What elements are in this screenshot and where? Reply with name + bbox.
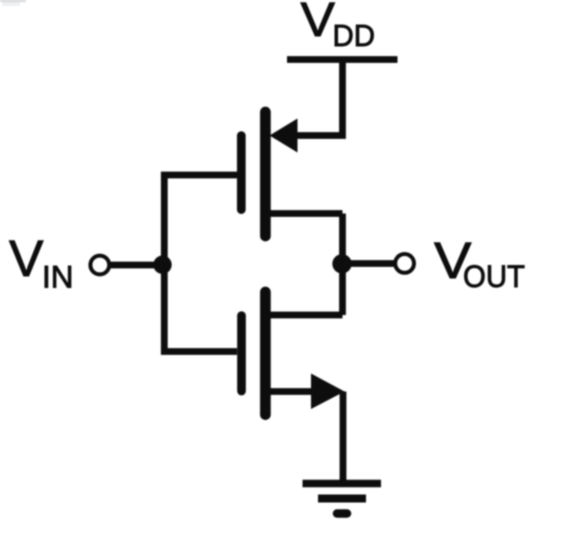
transistor M1 PMOS source arrow bbox=[270, 119, 298, 153]
transistor M2 NMOS source lead bbox=[267, 388, 314, 395]
wire NMOS source to ground bbox=[340, 392, 347, 488]
wire VDD rail to PMOS source bbox=[296, 60, 343, 136]
label VDD bbox=[301, 0, 376, 53]
transistor M1 PMOS gate bar bbox=[237, 136, 246, 210]
transistor M2 NMOS source arrow bbox=[311, 374, 345, 410]
node VIN junction bbox=[153, 256, 171, 274]
svg-text:IN: IN bbox=[42, 259, 74, 295]
transistor M2 NMOS gate bar bbox=[237, 316, 246, 391]
power rail VDD bbox=[287, 56, 398, 63]
svg-text:V: V bbox=[9, 230, 44, 287]
transistor M1 PMOS channel bar bbox=[260, 112, 271, 236]
svg-text:OUT: OUT bbox=[463, 258, 525, 294]
wire input to PMOS and NMOS gates bbox=[164, 175, 237, 352]
label VIN bbox=[9, 230, 74, 295]
wire PMOS drain to output node bbox=[339, 214, 346, 264]
terminal VOUT bbox=[395, 254, 414, 273]
svg-text:DD: DD bbox=[333, 18, 376, 53]
transistor M2 NMOS drain lead bbox=[267, 312, 343, 319]
ground middle bar bbox=[318, 495, 366, 503]
node VOUT junction bbox=[332, 254, 351, 273]
transistor M2 NMOS channel bar bbox=[260, 292, 271, 415]
svg-text:V: V bbox=[301, 0, 336, 47]
ground bottom bar bbox=[337, 509, 347, 518]
ground top bar bbox=[303, 480, 382, 488]
wire NMOS drain to output node bbox=[339, 264, 346, 315]
label VOUT bbox=[434, 232, 525, 294]
wire output node to VOUT terminal bbox=[342, 260, 395, 267]
terminal VIN bbox=[90, 256, 109, 275]
transistor M1 PMOS drain lead bbox=[267, 210, 343, 217]
wire VIN terminal to junction bbox=[110, 262, 163, 269]
